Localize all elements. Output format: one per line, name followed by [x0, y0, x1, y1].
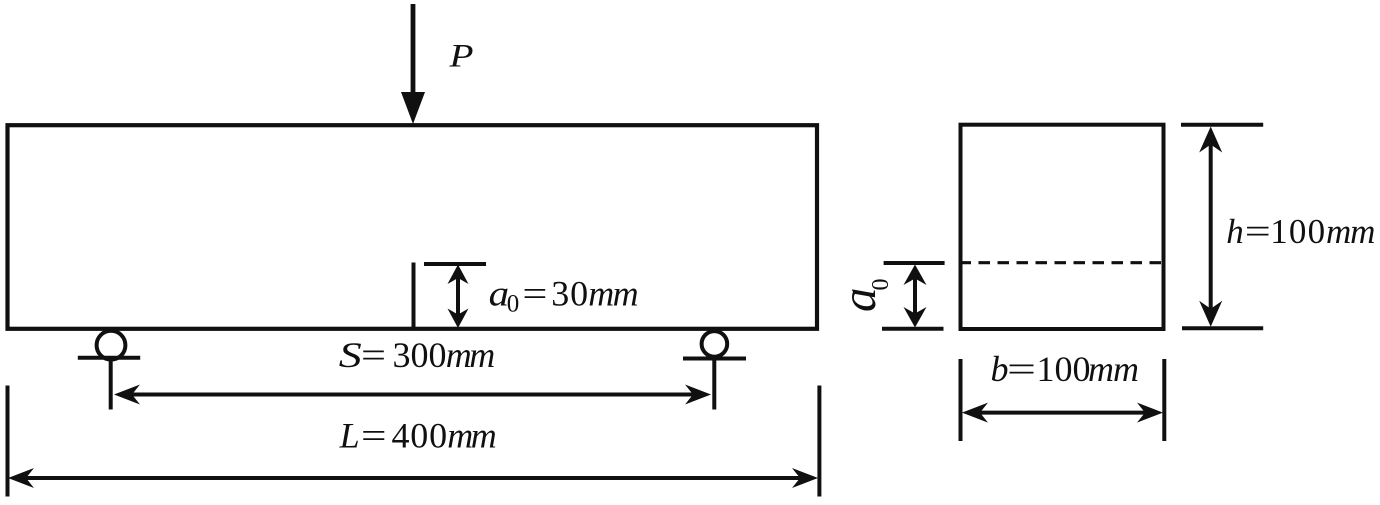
L dim arrowhead right — [792, 468, 818, 488]
b dimension arrow line — [975, 411, 1150, 415]
svg-text:L=400mm: L=400mm — [339, 416, 496, 456]
cross-section dashed crack line — [960, 261, 1164, 264]
load arrow P head — [401, 92, 425, 124]
L dim arrowhead left — [8, 468, 34, 488]
b dimension right bar — [1162, 359, 1166, 441]
svg-text:b=100mm: b=100mm — [991, 349, 1139, 389]
b dim arrowhead left — [962, 403, 988, 423]
h dimension top tick — [1181, 123, 1263, 127]
a0 section bottom tick — [882, 327, 944, 331]
b dimension left bar — [959, 359, 963, 441]
svg-text:h=100mm: h=100mm — [1226, 212, 1374, 251]
L dimension right extension bar — [817, 386, 821, 497]
svg-text:P: P — [448, 39, 473, 75]
b dim arrowhead right — [1137, 403, 1163, 423]
h dimension arrow line — [1209, 140, 1213, 314]
S dim arrowhead left — [114, 385, 140, 405]
h dimension bottom tick — [1182, 326, 1263, 330]
right support base line — [683, 357, 746, 361]
a0 section arrowhead up — [904, 265, 927, 286]
a0 beam dim arrowhead down — [448, 309, 469, 329]
left support extension line — [109, 358, 113, 410]
L dimension left extension bar — [6, 386, 10, 497]
left support circle — [97, 331, 126, 360]
svg-text:a0=30mm: a0=30mm — [489, 274, 638, 318]
L dimension line — [22, 476, 804, 480]
a0 beam dim arrow line — [456, 278, 460, 315]
a0 beam dim top tick — [424, 262, 486, 266]
svg-text:a0: a0 — [831, 279, 894, 313]
a0 beam dim arrowhead up — [448, 265, 469, 285]
beam outline — [8, 125, 818, 329]
right support extension line — [712, 359, 716, 410]
a0 section arrow line — [913, 276, 917, 316]
notch line — [412, 263, 416, 329]
h dim arrowhead up — [1199, 127, 1222, 153]
a0 section top tick — [884, 261, 945, 265]
left support base line — [78, 356, 140, 360]
S dimension line — [128, 393, 697, 397]
S dim arrowhead right — [685, 385, 711, 405]
right support circle — [702, 331, 728, 357]
load arrow P shaft — [411, 4, 416, 97]
a0 section arrowhead down — [904, 307, 927, 328]
svg-text:S=300mm: S=300mm — [339, 335, 494, 375]
cross-section square — [961, 125, 1164, 329]
h dim arrowhead down — [1199, 301, 1222, 327]
